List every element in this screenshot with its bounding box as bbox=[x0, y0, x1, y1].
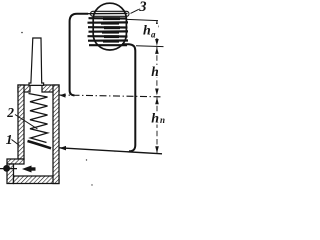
spring 2 (zigzag inside vessel) bbox=[29, 94, 48, 143]
vessel 1: top wall right section (hatched) bbox=[42, 85, 59, 92]
dimension h shaft bbox=[156, 47, 158, 96]
svg-text:h: h bbox=[151, 111, 159, 126]
label h background bbox=[151, 65, 161, 77]
bottom return line (slopes slightly) bbox=[60, 148, 163, 154]
small arrow at wall on water level line bbox=[60, 93, 66, 97]
h arrowheads bbox=[155, 47, 159, 54]
small arrow into vessel on bottom line bbox=[60, 146, 67, 151]
h_a arrowheads bbox=[155, 20, 159, 27]
left pipe from coil down to water level bbox=[70, 14, 88, 96]
vessel 1: left wall (hatched) bbox=[18, 85, 24, 159]
outlet port line bottom-left bbox=[0, 168, 17, 170]
right pipe from coil down to vessel bbox=[122, 44, 135, 151]
dimension h_a shaft bbox=[156, 21, 158, 46]
svg-text:n: n bbox=[160, 115, 165, 125]
vessel 1: bottom wall (hatched) bbox=[14, 176, 60, 184]
h_n arrowheads bbox=[155, 97, 159, 104]
dimension tick at pipe shoulder bbox=[136, 45, 164, 48]
coil 3: outline (stadium) bbox=[93, 3, 126, 50]
vessel 1: top wall left section (hatched) bbox=[18, 85, 30, 92]
dimension h_n shaft bbox=[156, 98, 158, 154]
label h_a background bbox=[142, 24, 158, 38]
small scan specks bbox=[21, 32, 23, 34]
vessel 1: bottom-left step horizontal bar (hatched) bbox=[7, 159, 24, 164]
pointer for label 3 bbox=[131, 9, 139, 13]
pointer for label 1 bbox=[12, 140, 20, 146]
flow arrow inside vessel pocket (points left) bbox=[22, 166, 32, 173]
svg-text:2: 2 bbox=[6, 105, 14, 120]
svg-text:a: a bbox=[151, 30, 156, 40]
pointer for label 2 bbox=[15, 115, 38, 130]
water level dash-dot line bbox=[59, 95, 161, 97]
svg-text:h: h bbox=[151, 64, 159, 79]
tube (chimney) on vessel top bbox=[29, 38, 44, 85]
svg-text:h: h bbox=[143, 24, 151, 39]
coil 3: flattened top turn bbox=[91, 11, 130, 16]
dimension tick top (from coil winding) bbox=[127, 19, 159, 20]
svg-text:3: 3 bbox=[138, 0, 146, 15]
coil 3: dark centre blobs bbox=[101, 17, 120, 42]
outlet port black dot bbox=[3, 165, 10, 172]
label h_n background bbox=[150, 112, 165, 125]
coil 3: winding bars bbox=[88, 13, 129, 45]
vessel 1: right wall (hatched) bbox=[53, 85, 59, 184]
spring 2: heavy bottom stroke bbox=[28, 141, 52, 148]
vessel 1: bottom-left step vertical bar (hatched) bbox=[7, 164, 14, 184]
svg-text:1: 1 bbox=[6, 133, 13, 148]
